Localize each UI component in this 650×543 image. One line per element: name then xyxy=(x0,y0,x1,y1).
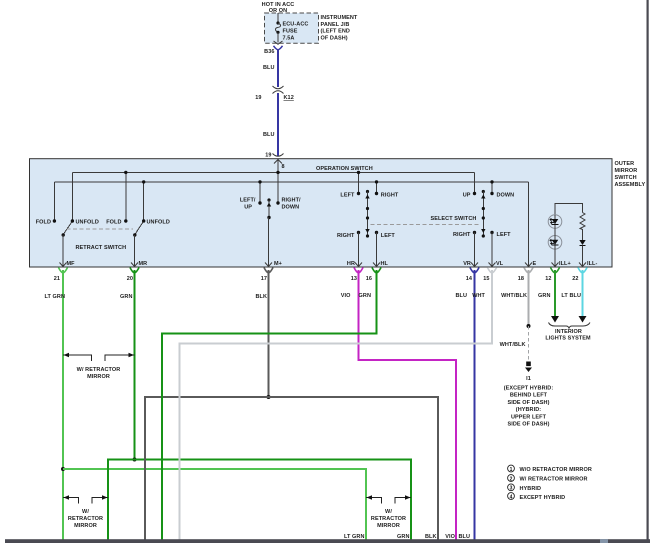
svg-text:LT GRN: LT GRN xyxy=(44,294,65,300)
svg-text:LEFT: LEFT xyxy=(497,232,512,238)
label OUTER MIRROR SWITCH ASSEMBLY xyxy=(615,161,646,188)
pin M+ xyxy=(261,263,273,283)
svg-text:SIDE OF DASH): SIDE OF DASH) xyxy=(508,422,550,428)
wire M+ branch right to bottom xyxy=(269,397,439,540)
legend note 3 xyxy=(508,484,541,492)
svg-text:GRN: GRN xyxy=(120,294,132,300)
switch select 1 blade xyxy=(365,190,369,238)
svg-text:13: 13 xyxy=(351,276,357,282)
window bottom bar xyxy=(5,539,650,543)
svg-text:MF: MF xyxy=(67,261,76,267)
svg-text:ECU-ACC: ECU-ACC xyxy=(283,22,309,28)
LED D1 xyxy=(548,215,562,229)
svg-text:PANEL J/B: PANEL J/B xyxy=(321,22,350,28)
wire E WHT/BLK xyxy=(500,270,531,361)
pin HR xyxy=(347,261,363,282)
svg-text:OPERATION SWITCH: OPERATION SWITCH xyxy=(316,166,373,172)
pin VL xyxy=(483,261,504,282)
instrument panel J/B dashed box xyxy=(265,13,319,43)
switch select 2 contacts (UP/DOWN to VR/VL) xyxy=(453,172,514,267)
svg-text:1: 1 xyxy=(510,467,513,473)
svg-text:GRN: GRN xyxy=(397,534,409,540)
svg-text:B36: B36 xyxy=(264,49,274,55)
svg-text:7.5A: 7.5A xyxy=(283,36,295,42)
wire MR branch right to bottom xyxy=(135,460,412,541)
svg-text:SWITCH: SWITCH xyxy=(615,175,637,181)
svg-text:SIDE OF DASH): SIDE OF DASH) xyxy=(508,400,550,406)
svg-text:HYBRID: HYBRID xyxy=(520,486,542,492)
svg-text:BEHIND LEFT: BEHIND LEFT xyxy=(510,393,548,399)
svg-text:K12: K12 xyxy=(284,95,294,101)
svg-text:VR: VR xyxy=(463,261,471,267)
pin ILL- xyxy=(572,261,597,282)
svg-text:BLU: BLU xyxy=(263,65,275,71)
svg-text:WHT: WHT xyxy=(472,293,485,299)
svg-text:LT GRN: LT GRN xyxy=(344,534,365,540)
svg-text:LT BLU: LT BLU xyxy=(561,293,581,299)
svg-text:MIRROR: MIRROR xyxy=(615,168,638,174)
wire BLU fuse to connector K12 xyxy=(263,49,278,87)
svg-text:UNFOLD: UNFOLD xyxy=(147,220,170,226)
svg-text:19: 19 xyxy=(255,95,261,101)
wire supply drop to RIGHT/DOWN contact xyxy=(277,160,279,203)
svg-text:SELECT SWITCH: SELECT SWITCH xyxy=(431,216,477,222)
svg-text:8: 8 xyxy=(282,164,285,170)
wire retract switch dashed link xyxy=(67,228,134,230)
wire HL GRN xyxy=(162,270,377,540)
legend note 4 xyxy=(508,493,566,501)
annotation W/ RETRACTOR MIRROR lower-right xyxy=(366,495,411,529)
svg-text:RETRACTOR: RETRACTOR xyxy=(68,516,103,522)
window right border xyxy=(647,0,649,543)
svg-text:14: 14 xyxy=(466,276,473,282)
wire bus B left corner to FOLD1 xyxy=(53,182,55,221)
svg-text:VIO: VIO xyxy=(341,293,351,299)
svg-text:MIRROR: MIRROR xyxy=(377,523,400,529)
svg-text:WHT/BLK: WHT/BLK xyxy=(501,293,527,299)
svg-text:EXCEPT HYBRID: EXCEPT HYBRID xyxy=(520,495,566,501)
wire bus B to UNFOLD2 xyxy=(143,182,145,221)
wire MF branch to bottom xyxy=(63,469,366,540)
wire BLU connector to switch assembly xyxy=(263,93,284,159)
svg-text:HR: HR xyxy=(347,261,355,267)
wire bus B xyxy=(54,181,528,183)
svg-text:MR: MR xyxy=(139,261,148,267)
svg-text:BLK: BLK xyxy=(425,534,437,540)
legend note 1 xyxy=(508,465,592,473)
svg-text:RIGHT/: RIGHT/ xyxy=(282,198,302,204)
svg-text:ILL+: ILL+ xyxy=(559,261,571,267)
diode D3 xyxy=(579,240,585,267)
wire bus B to pin E xyxy=(528,182,530,267)
wire bus A to FOLD2 xyxy=(125,172,127,221)
svg-text:OF DASH): OF DASH) xyxy=(321,35,348,41)
connector B36 at fuse box exit xyxy=(264,41,282,55)
legend note 2 xyxy=(508,475,588,483)
wire ILL- LT BLU to interior lights xyxy=(561,270,586,323)
wire bus A left corner to UNFOLD1 xyxy=(71,172,73,221)
pin VR xyxy=(463,261,479,282)
svg-text:ILL-: ILL- xyxy=(587,261,597,267)
wire HR VIO xyxy=(341,270,456,540)
svg-text:W/O RETRACTOR MIRROR: W/O RETRACTOR MIRROR xyxy=(520,467,592,473)
svg-text:W/: W/ xyxy=(385,509,392,515)
annotation W/ RETRACTOR MIRROR upper xyxy=(63,353,135,380)
svg-text:FOLD: FOLD xyxy=(36,220,51,226)
wire VR BLU xyxy=(455,270,474,540)
svg-text:21: 21 xyxy=(54,276,60,282)
svg-text:E: E xyxy=(533,261,537,267)
svg-text:BLU: BLU xyxy=(263,132,275,138)
resistor R1 xyxy=(580,213,585,241)
svg-text:RIGHT: RIGHT xyxy=(453,232,471,238)
svg-text:RIGHT: RIGHT xyxy=(337,233,355,239)
svg-text:BLU: BLU xyxy=(455,293,467,299)
switch select 2 blade xyxy=(481,190,485,238)
svg-text:GRN: GRN xyxy=(359,293,371,299)
svg-text:UPPER LEFT: UPPER LEFT xyxy=(511,414,547,420)
svg-text:(EXCEPT HYBRID:: (EXCEPT HYBRID: xyxy=(504,386,554,392)
svg-text:20: 20 xyxy=(127,276,133,282)
svg-text:LEFT: LEFT xyxy=(340,193,355,199)
svg-text:UP: UP xyxy=(244,205,252,211)
svg-text:HL: HL xyxy=(381,261,389,267)
pin 8 entry xyxy=(274,160,285,171)
svg-text:LEFT/: LEFT/ xyxy=(240,198,256,204)
wire MF LT GRN xyxy=(44,270,65,540)
switch retract 2 (MR) xyxy=(106,219,170,267)
svg-text:22: 22 xyxy=(572,276,578,282)
svg-text:(LEFT END: (LEFT END xyxy=(321,29,350,35)
svg-text:W/ RETRACTOR: W/ RETRACTOR xyxy=(77,367,121,373)
svg-text:LEFT: LEFT xyxy=(381,233,396,239)
svg-text:19: 19 xyxy=(265,153,271,159)
switch select 1 contacts (LEFT/RIGHT to HR/HL) xyxy=(337,171,399,267)
wire illumination top link xyxy=(555,203,583,215)
svg-text:UNFOLD: UNFOLD xyxy=(76,220,99,226)
wire M+ branch left to bottom xyxy=(145,397,269,540)
switch M+ common (LEFT/UP - RIGHT/DOWN) xyxy=(240,180,301,267)
node interior lights system xyxy=(545,323,591,342)
svg-text:OUTER: OUTER xyxy=(615,161,635,167)
fuse ECU-ACC 7.5A xyxy=(275,13,308,43)
wire VL WHT xyxy=(180,270,493,540)
pin MR xyxy=(127,261,148,282)
pin MF xyxy=(54,261,75,282)
connector 19 K12 xyxy=(255,86,294,101)
svg-text:MIRROR: MIRROR xyxy=(87,374,110,380)
svg-text:12: 12 xyxy=(545,276,551,282)
svg-text:I1: I1 xyxy=(526,376,531,382)
svg-text:DOWN: DOWN xyxy=(497,193,515,199)
svg-text:3: 3 xyxy=(510,486,513,492)
svg-text:FOLD: FOLD xyxy=(106,220,121,226)
svg-text:INTERIOR: INTERIOR xyxy=(555,329,582,335)
svg-text:17: 17 xyxy=(261,276,267,282)
pin HL xyxy=(366,261,389,282)
svg-text:UP: UP xyxy=(463,193,471,199)
svg-text:RETRACTOR: RETRACTOR xyxy=(371,516,406,522)
svg-text:4: 4 xyxy=(510,494,513,500)
wire ILL+ GRN to interior lights xyxy=(538,270,559,323)
wire select switch dashed link xyxy=(371,223,482,225)
label INSTRUMENT PANEL J/B xyxy=(321,15,358,41)
ground I1 xyxy=(504,362,554,428)
pin ILL+ xyxy=(545,261,571,282)
svg-text:DOWN: DOWN xyxy=(282,205,300,211)
label HOT IN ACC OR ON xyxy=(262,2,295,14)
svg-text:ASSEMBLY: ASSEMBLY xyxy=(615,182,646,188)
svg-text:16: 16 xyxy=(366,276,372,282)
svg-text:LIGHTS SYSTEM: LIGHTS SYSTEM xyxy=(545,336,591,342)
svg-text:VIO: VIO xyxy=(445,534,455,540)
svg-text:W/: W/ xyxy=(82,509,89,515)
node supply junction xyxy=(276,171,279,174)
LED D2 xyxy=(548,229,562,268)
svg-text:GRN: GRN xyxy=(538,293,550,299)
svg-text:FUSE: FUSE xyxy=(283,29,298,35)
svg-text:2: 2 xyxy=(510,476,513,482)
wire MR GRN xyxy=(120,270,136,462)
svg-text:M+: M+ xyxy=(274,261,282,267)
svg-text:INSTRUMENT: INSTRUMENT xyxy=(321,15,358,21)
svg-text:BLK: BLK xyxy=(255,294,267,300)
svg-text:18: 18 xyxy=(518,276,524,282)
annotation W/ RETRACTOR MIRROR lower-left xyxy=(63,495,108,529)
svg-text:WHT/BLK: WHT/BLK xyxy=(500,342,526,348)
svg-text:VL: VL xyxy=(496,261,504,267)
outer mirror switch assembly box xyxy=(30,159,613,267)
svg-text:15: 15 xyxy=(483,276,489,282)
wire bus A xyxy=(72,171,474,173)
svg-text:RETRACT SWITCH: RETRACT SWITCH xyxy=(76,245,127,251)
wire M+ BLK xyxy=(255,270,270,399)
svg-text:(HYBRID:: (HYBRID: xyxy=(516,407,541,413)
svg-text:RIGHT: RIGHT xyxy=(381,193,399,199)
svg-text:MIRROR: MIRROR xyxy=(74,523,97,529)
pin E xyxy=(518,261,537,282)
wire MR branch left to bottom xyxy=(108,460,135,541)
svg-text:BLU: BLU xyxy=(458,534,470,540)
svg-text:W/ RETRACTOR MIRROR: W/ RETRACTOR MIRROR xyxy=(520,477,588,483)
switch retract 1 (MF) xyxy=(36,219,99,267)
